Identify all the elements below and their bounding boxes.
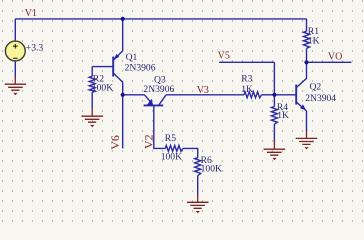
wire: Q2 emitter to ground: [306, 111, 308, 131]
svg-text:2N3906: 2N3906: [125, 63, 156, 74]
wire: source bottom to ground: [14, 61, 16, 77]
svg-text:Q2: Q2: [310, 82, 322, 93]
wire: node V3 Q3 collector to R3: [166, 94, 244, 96]
transistor Q3: collector diagonal: [159, 95, 166, 105]
transistor Q3: emitter diagonal: [145, 95, 153, 104]
resistor R2 100K (vertical): [89, 76, 95, 92]
svg-text:2N3906: 2N3906: [143, 84, 174, 95]
wire: R5 right to R6 top: [183, 148, 198, 157]
wire: R4 bottom to ground: [273, 124, 275, 142]
resistor R4 1K (vertical): [271, 107, 277, 125]
transistor Q3: PNP emitter arrow: [147, 99, 153, 106]
svg-text:100K: 100K: [201, 164, 222, 175]
wire: R1 bottom to VO junction: [306, 48, 308, 62]
svg-text:R5: R5: [165, 133, 176, 144]
voltage source V1 +3.3: [5, 41, 25, 61]
svg-text:V5: V5: [218, 50, 230, 61]
ground: below R2: [81, 108, 103, 127]
resistor R6 100K (vertical): [195, 158, 201, 176]
wire: junction to Q3 emitter: [123, 94, 145, 96]
transistor Q3 2N3906 PNP rotated: bar: [144, 104, 164, 106]
junction: Q1 collector / V6 / Q3 emitter: [121, 93, 125, 97]
svg-text:V3: V3: [197, 85, 209, 96]
transistor Q2: NPN emitter arrow: [300, 105, 306, 111]
transistor Q1: collector diagonal: [113, 73, 122, 82]
svg-text:1K: 1K: [308, 36, 320, 47]
wire: V1 top rail: [15, 18, 306, 20]
wire: R2 bottom to ground: [91, 92, 93, 108]
svg-text:V6: V6: [108, 135, 122, 150]
svg-text:100K: 100K: [161, 152, 182, 163]
ground: below R6: [187, 194, 209, 213]
svg-text:100K: 100K: [92, 83, 113, 94]
wire: Q3 base V2 down and right to R5: [154, 105, 166, 148]
transistor Q1: PNP emitter arrow: [113, 54, 119, 60]
transistor Q2: collector diagonal: [296, 62, 306, 87]
wire: R2 top from Q1 base: [91, 67, 93, 77]
ground: below source V1: [5, 76, 26, 95]
svg-text:1K: 1K: [241, 84, 253, 95]
wire: R6 bottom to ground: [197, 176, 199, 195]
svg-text:R3: R3: [241, 73, 252, 84]
junction: rail / Q1 emitter: [121, 17, 125, 21]
wire: node VO output: [307, 61, 352, 63]
wire: node V6 stub: [122, 95, 124, 149]
transistor Q2 2N3904 NPN: bar: [295, 85, 297, 105]
resistor R3 1K (horizontal): [244, 92, 262, 98]
junction: R1 / Q2 collector / VO: [304, 60, 308, 64]
transistor Q1 2N3906 PNP: bar: [112, 57, 114, 77]
svg-text:1K: 1K: [277, 110, 289, 121]
resistor R1 1K (vertical): [304, 31, 310, 48]
wire: R1 top connection to rail: [306, 19, 308, 31]
transistor Q1: emitter diagonal: [113, 51, 122, 60]
wire: R4 top from junction: [273, 95, 275, 107]
svg-text:+3.3: +3.3: [26, 43, 44, 54]
ground: below R4: [264, 141, 286, 160]
wire: node V5 horizontal: [219, 61, 274, 63]
svg-text:V2: V2: [141, 134, 155, 149]
ground: below Q2 emitter: [296, 130, 318, 149]
junction: R3 / R4 / Q2 base / V5: [272, 93, 276, 97]
transistor Q1: base wire: [92, 66, 113, 68]
transistor Q2: emitter diagonal: [296, 102, 306, 111]
wire: Q1 collector vertical: [122, 82, 124, 95]
resistor R5 100K (horizontal): [165, 145, 183, 151]
wire: R3 right to junction: [262, 94, 275, 96]
svg-text:V1: V1: [25, 8, 37, 19]
wire: rail drop to source V1: [14, 19, 16, 41]
svg-text:VO: VO: [328, 51, 342, 62]
wire: V5 vertical to junction: [273, 62, 275, 95]
wire: junction to Q2 base: [274, 94, 296, 96]
svg-text:2N3904: 2N3904: [305, 93, 336, 104]
wire: Q1 emitter vertical: [122, 19, 124, 51]
